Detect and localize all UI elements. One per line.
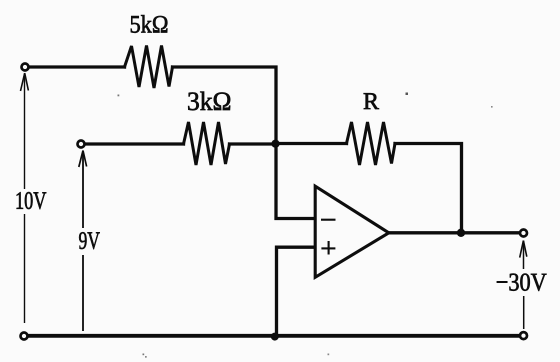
scan specks <box>118 93 493 358</box>
terminal: 9V input <box>78 141 85 148</box>
junction node dot: plus input to bottom rail <box>271 333 279 341</box>
resistor R feedback zigzag <box>347 122 396 165</box>
svg-text:9V: 9V <box>78 228 100 255</box>
9V dimension line with up arrow <box>79 151 87 332</box>
terminal: top-left 10V input <box>22 64 29 71</box>
10V dimension line with up arrow <box>21 73 29 323</box>
svg-text:R: R <box>363 89 379 115</box>
label -30V <box>496 267 548 296</box>
svg-text:10V: 10V <box>15 188 47 215</box>
svg-text:5kΩ: 5kΩ <box>129 11 168 38</box>
label 9V <box>78 228 100 255</box>
svg-text:−30V: −30V <box>496 267 548 296</box>
op-amp U1 triangle <box>315 186 389 277</box>
junction node dot: inverting summing node <box>271 140 279 148</box>
label 5kOhm <box>129 11 168 38</box>
terminal: bottom-right <box>520 332 527 339</box>
label 3kOhm <box>187 86 232 116</box>
svg-text:3kΩ: 3kΩ <box>187 86 232 116</box>
op-amp non-inverting input symbol plus <box>321 241 335 255</box>
wire: R to right corner then down to output node <box>395 144 462 234</box>
wire: 9V terminal to 3k resistor <box>84 142 184 145</box>
wire: non-inverting input left then down to bottom rail <box>277 247 315 336</box>
label 10V <box>15 188 47 215</box>
wire: 5k resistor to top-right corner, down to inverting node and into op-amp minus input <box>173 67 315 219</box>
resistor R2 3kOhm zigzag <box>184 122 230 165</box>
junction node dot: output/feedback <box>457 229 465 237</box>
wire top: input terminal to 5k resistor <box>28 65 125 68</box>
wire: junction node to feedback resistor R <box>276 142 347 145</box>
label R <box>363 89 379 115</box>
wire: 3k resistor to junction node <box>230 142 277 145</box>
terminal: bottom-left <box>21 333 28 340</box>
wire: bottom rail <box>24 334 519 338</box>
-30V dimension line with up arrow <box>520 241 527 330</box>
terminal: output -30V <box>520 230 527 237</box>
op-amp inverting input symbol minus <box>321 219 336 221</box>
wire: op-amp output to right terminal <box>388 231 519 234</box>
resistor R1 5kOhm zigzag <box>125 46 173 89</box>
